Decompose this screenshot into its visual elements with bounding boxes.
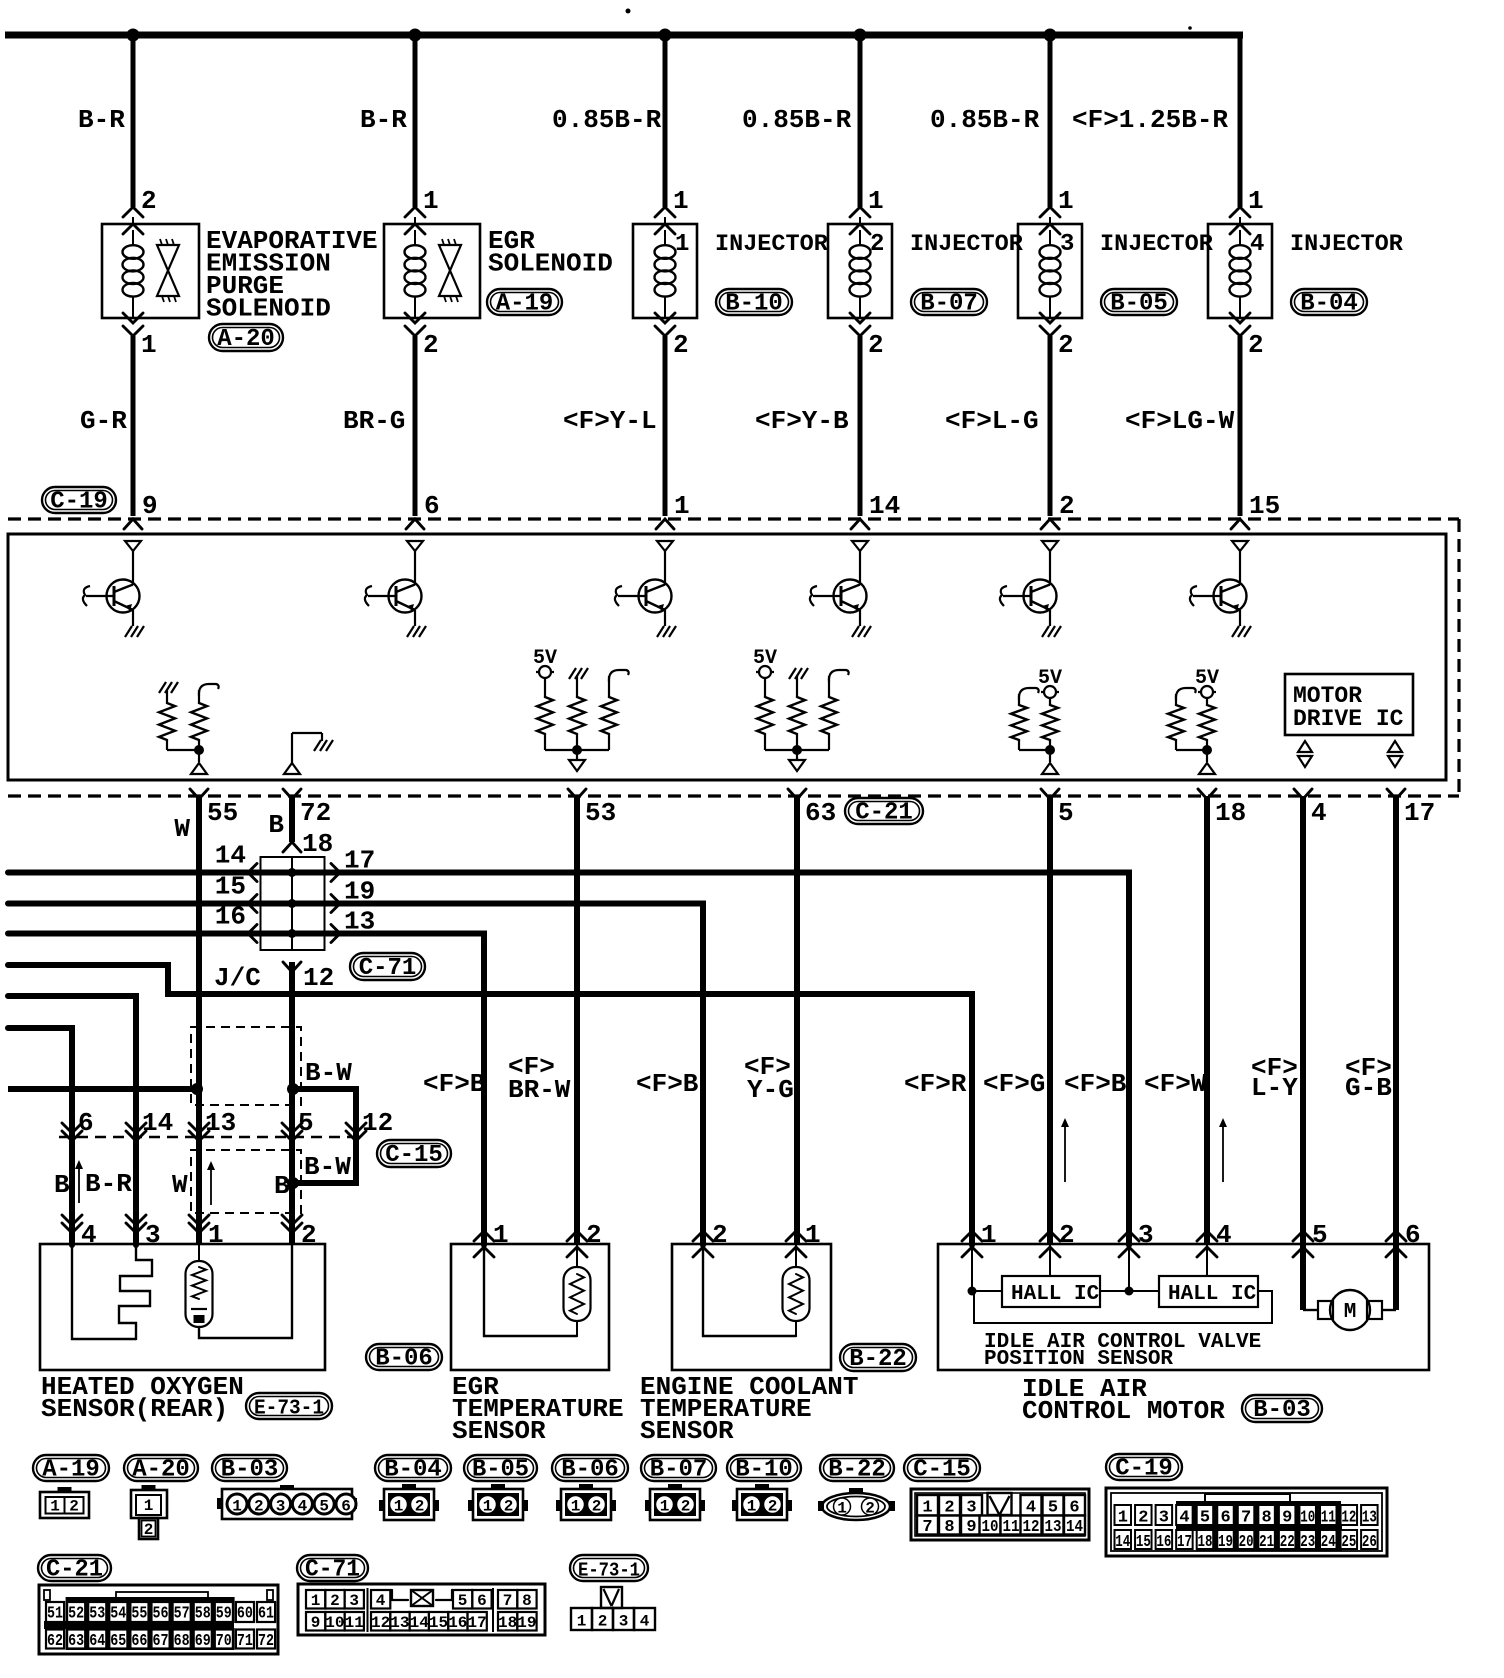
connector label C-71 [350,953,425,980]
svg-text:B: B [268,810,284,840]
C-15 pin 12 [346,1123,366,1133]
svg-text:G-B: G-B [1345,1073,1392,1103]
wire pin18 [1204,796,1210,1245]
svg-text:2: 2 [681,1498,691,1516]
svg-text:B-22: B-22 [828,1457,886,1484]
svg-text:70: 70 [216,1632,232,1651]
svg-text:B-R: B-R [360,105,407,135]
svg-text:4: 4 [1250,231,1264,258]
svg-text:8: 8 [1262,1509,1272,1528]
svg-text:71: 71 [237,1632,253,1651]
connector chevrons [664,311,666,318]
wire to HO2S signal [8,1086,197,1092]
ECU pin 18 [1198,789,1216,799]
svg-text:53: 53 [89,1605,105,1624]
connector pinout A-19 [40,1487,89,1518]
svg-text:19: 19 [517,1614,536,1632]
connector label C-71 [297,1555,368,1581]
svg-text:15: 15 [1249,491,1280,521]
connector chevrons [850,207,870,217]
svg-text:12: 12 [303,963,334,993]
label HEATED OXYGEN SENSOR(REAR) [41,1372,244,1424]
ECU pin 72 [283,789,301,799]
svg-text:2: 2 [598,1613,608,1631]
svg-text:66: 66 [131,1632,147,1651]
svg-text:7: 7 [922,1518,932,1537]
svg-text:14: 14 [1115,1533,1130,1552]
svg-text:14: 14 [1066,1518,1083,1537]
node on wire B [287,1083,299,1095]
connector chevrons [1040,207,1060,217]
connector label C-19 [1106,1454,1182,1480]
svg-text:INJECTOR: INJECTOR [1290,231,1404,258]
svg-text:HALL IC: HALL IC [1011,1283,1100,1306]
svg-text:B-W: B-W [305,1058,352,1088]
HO2S pin 3 [126,1215,146,1225]
wire [858,336,863,516]
svg-text:59: 59 [216,1605,232,1624]
svg-text:B-R: B-R [78,105,125,135]
wire pin5 [1047,796,1053,1245]
svg-text:1: 1 [1058,186,1074,216]
svg-text:<F>G: <F>G [983,1069,1045,1099]
svg-text:B: B [54,1170,70,1200]
wire B-W jumper [293,1089,356,1183]
node junction col5 [1044,29,1057,42]
svg-text:2: 2 [69,1498,79,1516]
svg-text:12: 12 [362,1108,393,1138]
wire J/C 15-19 to ECT pin2 [8,904,703,1246]
EGR sensor pin 1 [474,1231,494,1241]
svg-text:1: 1 [141,330,157,360]
svg-text:18: 18 [498,1614,517,1632]
svg-text:B-07: B-07 [650,1457,708,1484]
svg-text:2: 2 [330,1592,340,1610]
idle motor pin 4 [1197,1231,1217,1241]
connector chevrons [1230,207,1250,217]
J/C pins 14/17 [215,841,375,882]
5V sensor supply at pin 5 [1011,667,1062,774]
HO2S pin 4 [62,1215,82,1225]
svg-text:C-15: C-15 [385,1142,443,1169]
HO2S pin 2 [282,1215,302,1225]
svg-text:17: 17 [1177,1533,1192,1552]
svg-text:1: 1 [660,1498,670,1516]
svg-text:1: 1 [675,231,689,258]
wire [1238,35,1243,207]
connector label A-19 [487,289,562,315]
svg-text:<F>R: <F>R [904,1069,967,1099]
svg-text:9: 9 [142,491,158,521]
wire label <F> BR-W [508,1052,571,1105]
svg-text:3: 3 [1138,1220,1154,1250]
connector label A-20 [209,324,283,351]
transistor Q3 [615,541,676,637]
svg-text:<F>W: <F>W [1144,1069,1207,1099]
svg-text:B-06: B-06 [561,1457,619,1484]
direction arrow [210,1167,212,1205]
wire [131,336,136,516]
svg-text:14: 14 [869,491,900,521]
C-15 pin 6 [62,1123,82,1133]
svg-text:C-19: C-19 [1115,1456,1173,1483]
svg-text:<F>L-G: <F>L-G [945,406,1039,436]
connector label A-20 [124,1455,198,1481]
svg-text:57: 57 [174,1605,190,1624]
svg-text:13: 13 [390,1614,409,1632]
svg-text:CONTROL MOTOR: CONTROL MOTOR [1022,1396,1225,1426]
motor drive IC U1 [1285,674,1413,735]
ECU dashed boundary right [1457,519,1460,796]
svg-text:5: 5 [298,1108,314,1138]
svg-text:B-05: B-05 [1110,291,1168,318]
5V sensor supply at pin 63 [753,647,849,771]
EGR sensor pin 2 [567,1231,587,1241]
svg-text:<F>B: <F>B [1064,1069,1127,1099]
svg-text:24: 24 [1321,1533,1336,1552]
svg-text:B-R: B-R [85,1169,132,1199]
idle motor pin 6 [1386,1231,1406,1241]
wire pin63 [794,796,800,1245]
connector label B-10 [727,1455,801,1481]
wire [1048,35,1053,207]
connector pinout E-73-1 [571,1587,655,1631]
svg-text:A-19: A-19 [42,1457,100,1484]
svg-text:1: 1 [868,186,884,216]
connector label B-03 [1242,1395,1322,1422]
svg-text:1: 1 [50,1498,60,1516]
wire [858,35,863,207]
idle motor pin 5 [1293,1231,1313,1241]
svg-text:INJECTOR: INJECTOR [715,231,829,258]
speck [1188,26,1192,30]
node junction col3 [659,29,672,42]
svg-text:6: 6 [477,1592,487,1610]
connector label B-04 [1291,289,1367,315]
connector pinout B-06 [556,1484,616,1520]
wire [1048,336,1053,516]
connector label C-21 [845,798,923,824]
svg-text:11: 11 [345,1614,364,1632]
ECU pin 4 [1294,789,1312,799]
connector pinout B-03 [217,1485,357,1519]
svg-text:INJECTOR: INJECTOR [1100,231,1214,258]
svg-text:6: 6 [341,1498,351,1516]
svg-text:51: 51 [47,1605,63,1624]
svg-text:14: 14 [142,1108,173,1138]
node [287,1177,299,1189]
wire label <F> L-Y [1251,1053,1298,1103]
svg-text:12: 12 [371,1614,390,1632]
svg-text:1: 1 [837,1500,847,1518]
svg-text:<F>B: <F>B [636,1069,699,1099]
connector chevrons [859,311,861,318]
svg-text:2: 2 [1248,330,1264,360]
svg-text:4: 4 [1216,1220,1232,1250]
svg-text:15: 15 [215,872,246,902]
wire pin17 [1393,796,1399,1310]
svg-text:C-21: C-21 [855,800,913,827]
svg-text:21: 21 [1259,1533,1274,1552]
svg-text:6: 6 [1220,1509,1230,1528]
svg-text:5: 5 [1312,1220,1328,1250]
svg-text:B-04: B-04 [384,1457,442,1484]
svg-text:61: 61 [258,1605,274,1624]
label EVAPORATIVE EMISSION PURGE SOLENOID [206,226,378,324]
connector chevrons [1049,311,1051,318]
HO2S pin 1 [189,1215,209,1225]
svg-text:54: 54 [110,1605,126,1624]
svg-text:67: 67 [153,1632,169,1651]
connector label C-15 [377,1140,451,1167]
svg-text:4: 4 [298,1498,308,1516]
svg-text:<F>LG-W: <F>LG-W [1125,406,1235,436]
svg-text:B-03: B-03 [1253,1397,1311,1424]
svg-text:15: 15 [1136,1533,1151,1552]
svg-text:2: 2 [592,1498,602,1516]
svg-text:C-21: C-21 [46,1557,103,1584]
svg-text:9: 9 [311,1614,321,1632]
ECU pin 53 [568,789,586,799]
svg-text:1: 1 [673,186,689,216]
C-15 pin 5 [282,1123,302,1133]
5V sensor supply at pin 18 [1168,667,1219,774]
connector label B-06 [552,1455,628,1481]
svg-text:6: 6 [78,1108,94,1138]
connector label B-22 [840,1344,916,1371]
direction arrow [1064,1124,1066,1182]
injector 2 box [828,224,892,318]
idle motor pin 3 [1119,1231,1139,1241]
svg-text:11: 11 [1321,1509,1336,1528]
wire J/C 14-17 to idle pin3 [8,873,1129,1246]
svg-text:10: 10 [982,1518,999,1537]
svg-text:5: 5 [1200,1509,1210,1528]
svg-text:SOLENOID: SOLENOID [488,249,613,279]
svg-text:5: 5 [458,1592,468,1610]
svg-text:E-73-1: E-73-1 [254,1398,324,1421]
svg-text:63: 63 [805,798,836,828]
connector label B-07 [641,1455,716,1481]
connector pinout C-71 [298,1584,545,1635]
transistor Q4 [810,541,871,637]
svg-text:72: 72 [258,1632,274,1651]
connector label B-03 [212,1455,287,1481]
connector pinout B-10 [732,1484,792,1520]
svg-text:1: 1 [232,1498,242,1516]
svg-text:2: 2 [1059,491,1075,521]
svg-text:0.85B-R: 0.85B-R [742,105,852,135]
transistor Q6 [1190,541,1251,637]
svg-text:4: 4 [1179,1509,1189,1528]
svg-text:W: W [172,1170,188,1200]
svg-text:22: 22 [1280,1533,1295,1552]
svg-text:2: 2 [768,1498,778,1516]
svg-text:3: 3 [1159,1509,1169,1528]
svg-text:1: 1 [571,1498,581,1516]
svg-text:SENSOR(REAR): SENSOR(REAR) [41,1394,228,1424]
speck [626,9,631,14]
svg-text:C-19: C-19 [50,489,108,516]
svg-text:65: 65 [110,1632,126,1651]
svg-text:4: 4 [376,1592,386,1610]
connector chevrons [405,207,425,217]
svg-text:2: 2 [870,231,884,258]
connector pinout C-19 [1106,1488,1387,1556]
ECU connector dashed boundary top [8,517,1459,520]
5V sensor supply at pin 53 [533,647,629,771]
connector pinout C-21 [39,1585,278,1654]
ECU pin 55 [190,789,208,799]
svg-text:1: 1 [1248,186,1264,216]
svg-text:3: 3 [145,1220,161,1250]
engine coolant temperature sensor box [672,1244,831,1370]
connector pinout A-20 [131,1485,167,1539]
shield dashed box upper [191,1027,301,1105]
wire [131,35,136,207]
label EGR TEMPERATURE SENSOR [452,1372,624,1446]
svg-text:4: 4 [81,1220,97,1250]
pull-up resistors at pin 55 [159,682,219,774]
svg-text:1: 1 [394,1498,404,1516]
injector 3 box [1018,224,1082,318]
svg-text:14: 14 [215,841,246,871]
svg-text:1: 1 [1118,1509,1128,1528]
svg-text:2: 2 [144,1521,154,1539]
svg-text:72: 72 [300,798,331,828]
svg-text:B-04: B-04 [1300,291,1358,318]
svg-text:2: 2 [1138,1509,1148,1528]
ECU dashed boundary bottom [8,794,1459,797]
connector label B-10 [716,289,792,315]
injector 1 box [633,224,697,318]
idle motor pin 2 [1040,1231,1060,1241]
ECT sensor pin 2 [693,1231,713,1241]
svg-text:62: 62 [47,1632,63,1651]
idle air control motor B-03 box [938,1244,1429,1371]
transistor Q1 [83,541,144,637]
svg-text:2: 2 [254,1498,264,1516]
J/C bottom pin 12 [214,962,334,993]
wire label <F> G-B [1345,1053,1392,1103]
wire B to C-15 pin6 [8,1028,72,1245]
svg-text:SENSOR: SENSOR [640,1416,734,1446]
EGR solenoid A-19 box [384,224,480,318]
connector pinout B-05 [468,1484,528,1520]
IC output terminals [1388,741,1402,767]
svg-text:2: 2 [586,1220,602,1250]
direction arrow [78,1166,80,1203]
shield dashed box lower [191,1150,301,1213]
svg-text:64: 64 [89,1632,105,1651]
connector pinout C-15 [911,1489,1089,1540]
svg-text:9: 9 [1282,1509,1292,1528]
connector label A-19 [33,1455,109,1481]
ECU box [8,534,1446,780]
svg-text:16: 16 [448,1614,467,1632]
wire [1238,336,1243,516]
node junction col2 [409,29,422,42]
svg-text:E-73-1: E-73-1 [578,1560,640,1582]
svg-text:B-10: B-10 [735,1457,793,1484]
wire W pin55 [196,796,202,1245]
svg-text:23: 23 [1300,1533,1315,1552]
connector label E-73-1 [570,1555,648,1581]
svg-text:1: 1 [483,1498,493,1516]
svg-text:60: 60 [237,1605,253,1624]
svg-text:19: 19 [1218,1533,1233,1552]
connector label B-05 [1101,289,1177,315]
C-15 pin 14 [126,1123,146,1133]
svg-text:68: 68 [174,1632,190,1651]
svg-text:Y-G: Y-G [747,1075,794,1105]
svg-text:B-22: B-22 [849,1346,907,1373]
svg-text:8: 8 [522,1592,532,1610]
node junction col4 [854,29,867,42]
connector label C-19 [42,487,116,513]
wire pin4 [1300,796,1306,1310]
svg-text:69: 69 [195,1632,211,1651]
svg-text:25: 25 [1341,1533,1356,1552]
svg-text:1: 1 [747,1498,757,1516]
svg-text:B: B [274,1171,290,1201]
svg-text:55: 55 [131,1605,147,1624]
svg-text:<F>B: <F>B [423,1069,486,1099]
connector label B-06 [366,1344,442,1370]
svg-text:DRIVE IC: DRIVE IC [1293,706,1404,732]
connector chevrons [655,207,675,217]
svg-text:4: 4 [1311,798,1327,828]
svg-text:<F>1.25B-R: <F>1.25B-R [1072,105,1228,135]
ground link at pin 72 [284,733,333,774]
svg-text:L-Y: L-Y [1251,1073,1298,1103]
svg-text:A-20: A-20 [132,1457,190,1484]
svg-text:5: 5 [1058,798,1074,828]
wire to idle pin1 [8,965,972,1245]
label EGR SOLENOID [488,226,613,279]
svg-text:INJECTOR: INJECTOR [910,231,1024,258]
svg-text:6: 6 [424,491,440,521]
direction arrow [1222,1124,1224,1182]
wire J/C 16-13 to EGR pin1 [8,934,484,1246]
wire [413,35,418,207]
svg-text:B-W: B-W [304,1152,351,1182]
wire B pin12 to sensor [289,962,295,1245]
svg-text:55: 55 [207,798,238,828]
svg-text:7: 7 [1241,1509,1251,1528]
node junction col1 [127,29,140,42]
svg-text:17: 17 [1404,798,1435,828]
svg-text:10: 10 [325,1614,344,1632]
svg-text:1: 1 [577,1613,587,1631]
svg-text:B-06: B-06 [375,1346,433,1373]
wire [413,336,418,516]
connector label B-04 [375,1455,451,1481]
wire B-R to HO2S pin3 [8,996,136,1245]
svg-text:53: 53 [585,798,616,828]
svg-text:1: 1 [805,1220,821,1250]
heated oxygen sensor (rear) E-73-1 [40,1244,325,1370]
svg-text:1: 1 [493,1220,509,1250]
svg-text:1: 1 [674,491,690,521]
svg-text:G-R: G-R [80,406,127,436]
svg-text:A-20: A-20 [217,326,275,353]
C-15 pin 13 [189,1123,209,1133]
svg-text:63: 63 [68,1632,84,1651]
label ENGINE COOLANT TEMPERATURE SENSOR [640,1372,858,1446]
svg-text:9: 9 [966,1518,976,1537]
svg-text:8: 8 [944,1518,954,1537]
